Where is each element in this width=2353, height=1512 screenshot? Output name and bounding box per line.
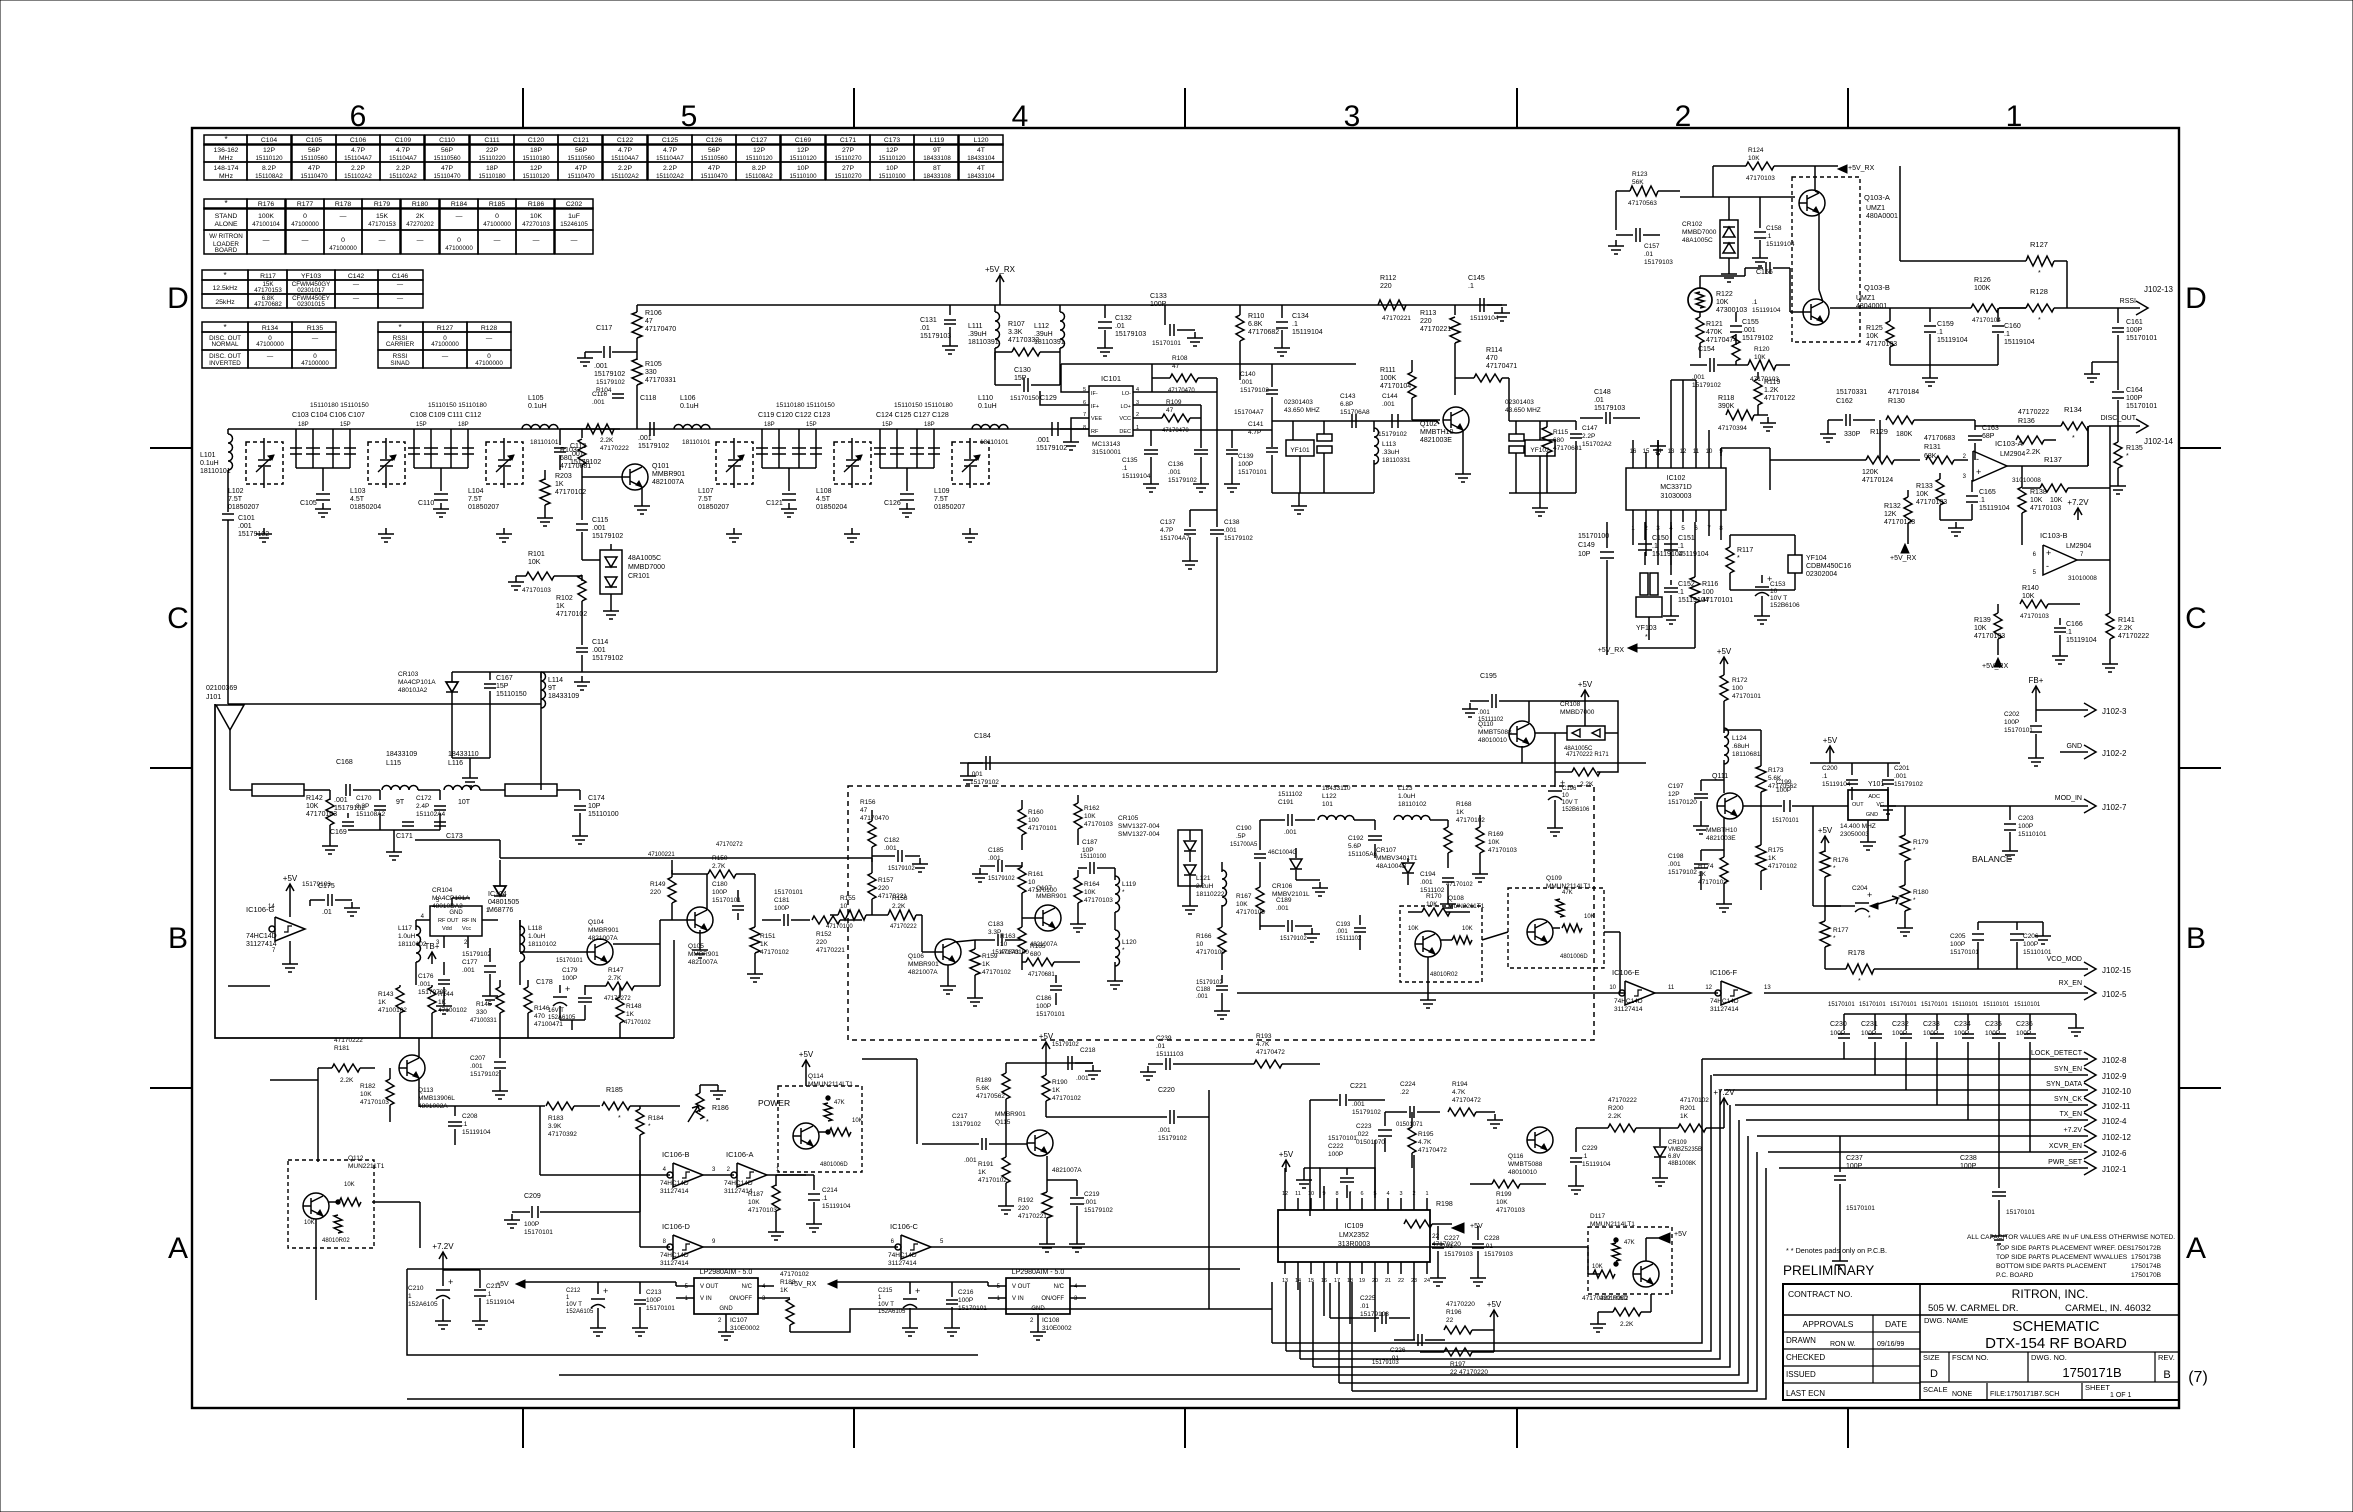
svg-text:15110100: 15110100: [1080, 854, 1107, 860]
svg-text:—: —: [417, 237, 424, 244]
svg-text:0.1uH: 0.1uH: [978, 403, 997, 410]
svg-text:15179102: 15179102: [988, 876, 1015, 882]
resistor R121: [1696, 317, 1704, 343]
svg-text:.1: .1: [1766, 233, 1772, 240]
svg-text:1511102: 1511102: [1278, 791, 1303, 798]
svg-text:.22: .22: [1400, 1089, 1409, 1096]
svg-text:31127414: 31127414: [1614, 1006, 1643, 1013]
svg-text:.001: .001: [334, 797, 348, 804]
svg-text:4821007A: 4821007A: [908, 969, 938, 976]
svg-text:DRAWN: DRAWN: [1786, 1336, 1816, 1345]
regulator IC107: [694, 1278, 758, 1314]
zone tick top 3/2: [1516, 88, 1518, 128]
svg-text:—: —: [533, 237, 540, 244]
svg-text:IC104: IC104: [488, 891, 507, 898]
svg-text:R135: R135: [307, 325, 323, 332]
svg-text:R162: R162: [1084, 805, 1100, 812]
svg-text:C149: C149: [1578, 542, 1595, 549]
resistor R103: [581, 429, 583, 438]
svg-text:10V T: 10V T: [878, 1302, 894, 1308]
wire q114 to q115 base: [862, 1058, 917, 1060]
svg-text:C152: C152: [1678, 581, 1695, 588]
inductor L112: [1059, 305, 1061, 312]
transistor Q102 b: [1437, 421, 1439, 424]
svg-text:47170222: 47170222: [600, 445, 629, 452]
svg-text:18433108: 18433108: [923, 173, 951, 180]
svg-text:310E0002: 310E0002: [1042, 1325, 1072, 1332]
svg-text:47170681: 47170681: [560, 463, 591, 470]
resistor R143: [396, 987, 404, 1013]
capacitor C222: [1340, 1177, 1354, 1179]
svg-text:C105: C105: [306, 137, 322, 144]
svg-text:.001: .001: [1076, 1075, 1089, 1082]
svg-text:47170100: 47170100: [1196, 949, 1225, 956]
svg-text:47170562: 47170562: [976, 1093, 1005, 1100]
svg-text:—: —: [486, 335, 493, 342]
svg-text:L113: L113: [1382, 441, 1396, 448]
svg-text:MMBV3401T1: MMBV3401T1: [1376, 855, 1418, 862]
svg-text:47170123: 47170123: [1884, 519, 1915, 526]
crystal filter YF102: [1525, 440, 1555, 456]
resistor R111: [1408, 372, 1416, 398]
svg-text:CARMEL, IN. 46032: CARMEL, IN. 46032: [2065, 1303, 2151, 1314]
svg-text:680: 680: [1553, 437, 1564, 444]
svg-text:C185: C185: [988, 847, 1004, 854]
svg-text:100: 100: [1028, 817, 1039, 824]
svg-text:R157: R157: [878, 877, 894, 884]
resistor R195: [1408, 1127, 1416, 1153]
svg-text:15110470: 15110470: [700, 173, 728, 180]
svg-text:MHz: MHz: [219, 155, 234, 162]
capacitor C216: [946, 1299, 958, 1301]
svg-text:47170470: 47170470: [1168, 388, 1195, 394]
svg-text:3.3K: 3.3K: [1008, 329, 1023, 336]
svg-text:.1: .1: [1468, 283, 1474, 290]
svg-text:15110560: 15110560: [433, 155, 461, 162]
svg-text:MMBTH10: MMBTH10: [1420, 429, 1454, 436]
svg-text:L109: L109: [934, 488, 950, 495]
svg-text:+: +: [2046, 548, 2051, 558]
svg-text:15110150 15110180: 15110150 15110180: [894, 402, 953, 409]
svg-text:J102-2: J102-2: [2102, 749, 2127, 758]
svg-text:18110102: 18110102: [1398, 801, 1427, 808]
transistor Q112 cell: [288, 1160, 374, 1248]
svg-text:R203: R203: [555, 473, 572, 480]
svg-text:15179102: 15179102: [638, 443, 669, 450]
svg-text:L101: L101: [200, 452, 216, 459]
resistor R166: [1218, 927, 1226, 953]
svg-text:01501070: 01501070: [1356, 1139, 1385, 1146]
capacitor C181: [783, 914, 785, 926]
svg-text:ADC: ADC: [1868, 794, 1880, 800]
svg-text:18110101: 18110101: [682, 439, 711, 446]
svg-text:100P: 100P: [1036, 1003, 1051, 1010]
svg-text:L112: L112: [1034, 323, 1049, 330]
capacitor C118: [649, 422, 651, 436]
svg-text:IC106-B: IC106-B: [662, 1150, 690, 1159]
svg-text:R164: R164: [1084, 881, 1100, 888]
svg-text:15179102: 15179102: [592, 655, 623, 662]
capacitor C154: [1709, 358, 1711, 372]
svg-text:.01: .01: [1156, 1043, 1165, 1050]
svg-text:100: 100: [1732, 685, 1743, 692]
wire IF node: [560, 428, 620, 430]
svg-text:74HC14D: 74HC14D: [1614, 998, 1643, 1005]
power +5V_RX left: [1628, 644, 1637, 652]
capacitor C210: [442, 1264, 444, 1286]
svg-text:47P: 47P: [308, 165, 321, 172]
svg-text:47170683: 47170683: [1924, 435, 1955, 442]
svg-text:15179102: 15179102: [1084, 1207, 1113, 1214]
title block size/fscm/dwgno/rev: [1920, 1381, 2179, 1383]
capacitor C138: [1210, 529, 1224, 531]
resistor R190: [1042, 1075, 1050, 1101]
svg-text:1K: 1K: [760, 941, 769, 948]
svg-text:18110222: 18110222: [1196, 891, 1225, 898]
svg-text:68P: 68P: [1982, 433, 1995, 440]
svg-text:C214: C214: [822, 1187, 838, 1194]
svg-text:+: +: [565, 984, 570, 994]
svg-text:47170472: 47170472: [1256, 1049, 1285, 1056]
svg-text:15179103: 15179103: [920, 333, 951, 340]
svg-text:V IN: V IN: [700, 1296, 712, 1302]
resistor pad R183x: [252, 784, 304, 796]
svg-text:R140: R140: [2022, 585, 2039, 592]
svg-text:SMV1327-004: SMV1327-004: [1118, 831, 1160, 838]
capacitor C129: [1051, 422, 1053, 436]
resistor R197: [1444, 1348, 1472, 1356]
svg-text:R135: R135: [2126, 445, 2143, 452]
svg-text:C131: C131: [920, 317, 937, 324]
table stand-alone / loader board options: [204, 199, 247, 209]
svg-text:C137: C137: [1160, 519, 1176, 526]
svg-text:8T: 8T: [933, 165, 941, 172]
svg-text:02100369: 02100369: [206, 685, 237, 692]
varactor cell L107: [716, 442, 753, 484]
svg-text:.1: .1: [1652, 543, 1658, 550]
svg-text:47100000: 47100000: [291, 221, 319, 228]
svg-text:100P: 100P: [1861, 1030, 1876, 1037]
svg-text:15170120: 15170120: [1668, 799, 1697, 806]
svg-text:9T: 9T: [548, 685, 557, 692]
svg-text:100P: 100P: [2016, 1030, 2031, 1037]
svg-text:*: *: [2038, 270, 2041, 277]
resistor R120: [1748, 360, 1776, 370]
ic IC109 synthesizer: [1278, 1210, 1430, 1262]
svg-text:R195: R195: [1418, 1131, 1434, 1138]
wire CR103 C167 join: [452, 757, 490, 759]
svg-text:R161: R161: [1028, 871, 1044, 878]
zone tick top 2/1: [1847, 88, 1849, 128]
svg-text:2.2P: 2.2P: [1582, 433, 1595, 440]
svg-text:1: 1: [1425, 1191, 1428, 1197]
resistor R127: [2026, 256, 2054, 266]
svg-text:136-162: 136-162: [214, 147, 239, 154]
resistor R164: [1074, 877, 1082, 903]
svg-text:01850207: 01850207: [228, 504, 259, 511]
resistor R132: [1904, 497, 1912, 523]
svg-text:R111: R111: [1380, 367, 1396, 374]
svg-text:MUN2211T1: MUN2211T1: [1448, 903, 1485, 910]
wire antenna rail: [452, 671, 541, 673]
capacitor C220: [1169, 1110, 1171, 1124]
capacitor C165: [1971, 480, 1973, 492]
svg-text:10K: 10K: [1754, 354, 1766, 361]
svg-text:10K: 10K: [1866, 333, 1879, 340]
capacitor C196: [1548, 790, 1562, 792]
svg-text:V IN: V IN: [1012, 1296, 1024, 1302]
svg-text:C109: C109: [395, 137, 411, 144]
svg-text:12.5kHz: 12.5kHz: [213, 285, 239, 292]
svg-text:R169: R169: [1488, 831, 1504, 838]
svg-text:*: *: [2072, 435, 2075, 442]
svg-text:2.2K: 2.2K: [2118, 625, 2133, 632]
svg-text:151104A7: 151104A7: [611, 155, 639, 162]
svg-text:680: 680: [560, 455, 572, 462]
svg-text:47170472: 47170472: [1452, 1097, 1481, 1104]
svg-text:47: 47: [645, 318, 653, 325]
svg-text:47100000: 47100000: [301, 360, 329, 367]
svg-text:.1: .1: [1678, 543, 1684, 550]
svg-text:R193: R193: [1256, 1033, 1272, 1040]
svg-text:15179102: 15179102: [1668, 869, 1697, 876]
svg-text:R116: R116: [1702, 581, 1718, 588]
svg-text:15170101: 15170101: [2126, 335, 2157, 342]
svg-text:47170102: 47170102: [1446, 882, 1473, 888]
svg-text:18433104: 18433104: [967, 155, 995, 162]
transistor Q108 cell: [1400, 906, 1482, 982]
svg-text:R129: R129: [1870, 427, 1888, 436]
svg-text:8.2P: 8.2P: [262, 165, 276, 172]
svg-text:C119 C120 C122 C123: C119 C120 C122 C123: [758, 412, 830, 419]
svg-text:47170103: 47170103: [1236, 909, 1265, 916]
wire Q105 collector: [706, 874, 708, 910]
svg-text:.001: .001: [1742, 327, 1756, 334]
svg-text:47170101: 47170101: [1028, 825, 1057, 832]
capacitor C225: [1381, 1312, 1383, 1324]
svg-text:10K: 10K: [2030, 497, 2043, 504]
svg-text:18110101: 18110101: [530, 439, 559, 446]
svg-text:74HC14D: 74HC14D: [660, 1252, 689, 1259]
ground IC102 top: [1657, 440, 1659, 456]
capacitor C184: [985, 756, 987, 770]
svg-text:02302004: 02302004: [1806, 571, 1837, 578]
svg-text:02301017: 02301017: [297, 287, 325, 294]
svg-text:15119104: 15119104: [2066, 637, 2097, 644]
svg-text:15P: 15P: [340, 422, 351, 428]
resistor R145: [496, 987, 504, 1013]
capacitor C195: [1491, 694, 1493, 708]
svg-text:RSSI: RSSI: [393, 353, 408, 360]
svg-text:C148: C148: [1594, 389, 1611, 396]
capacitor C190: [1259, 840, 1261, 850]
svg-text:48B1008K: 48B1008K: [1668, 1161, 1696, 1167]
svg-text:4.7P: 4.7P: [1248, 429, 1261, 436]
svg-text:100P: 100P: [2004, 719, 2019, 726]
svg-text:220: 220: [1018, 1205, 1029, 1212]
svg-text:C198: C198: [1668, 853, 1684, 860]
capacitor C156: [1765, 262, 1767, 274]
capacitors C119 C120 C122 C123: [761, 429, 763, 468]
svg-text:R128: R128: [481, 325, 497, 332]
border frame: [192, 128, 2179, 1408]
svg-text:TB+: TB+: [425, 942, 440, 951]
ceramic resonator pair: [1317, 434, 1332, 441]
svg-text:CR104: CR104: [432, 887, 453, 894]
svg-text:MA4CP101A: MA4CP101A: [398, 679, 436, 686]
svg-text:4.5T: 4.5T: [816, 496, 831, 503]
svg-text:100P: 100P: [1985, 1030, 2000, 1037]
svg-text:R182: R182: [360, 1083, 376, 1090]
svg-text:15179102: 15179102: [970, 779, 999, 786]
svg-text:15110120: 15110120: [789, 155, 817, 162]
resistor R142: [329, 790, 331, 800]
ground disc mid: [1940, 519, 1972, 521]
svg-text:.001: .001: [238, 523, 252, 530]
svg-text:10V T: 10V T: [1770, 595, 1787, 602]
svg-text:C168: C168: [336, 759, 353, 766]
svg-text:FILE:1750171B7.SCH: FILE:1750171B7.SCH: [1990, 1391, 2059, 1398]
svg-text:+5V_RX: +5V_RX: [1598, 647, 1625, 654]
svg-text:15P: 15P: [496, 683, 509, 690]
svg-text:15110101: 15110101: [2014, 1002, 2041, 1008]
svg-text:151102A2: 151102A2: [656, 173, 684, 180]
capacitor C224: [1409, 1106, 1411, 1118]
svg-text:Vdd: Vdd: [442, 926, 452, 932]
svg-text:NORMAL: NORMAL: [212, 341, 239, 348]
resistor R168: [1444, 827, 1452, 853]
capacitor C188: [1216, 985, 1228, 987]
svg-text:47100331: 47100331: [470, 1018, 497, 1024]
svg-text:C191: C191: [1278, 799, 1294, 806]
capacitor C147b: [1575, 421, 1577, 430]
svg-text:R163: R163: [1000, 933, 1016, 940]
svg-text:LAST ECN: LAST ECN: [1786, 1389, 1825, 1398]
svg-text:47170222 R202: 47170222 R202: [1582, 1295, 1629, 1302]
svg-text:4821007A: 4821007A: [588, 935, 618, 942]
svg-text:SMV1327-004: SMV1327-004: [1118, 823, 1160, 830]
capacitor C183: [997, 934, 999, 946]
svg-text:L108: L108: [816, 488, 832, 495]
svg-text:C188: C188: [1196, 987, 1211, 993]
svg-text:47: 47: [1172, 363, 1180, 370]
svg-text:Q104: Q104: [588, 919, 604, 926]
svg-text:R177: R177: [297, 201, 313, 208]
capacitor C135: [1150, 430, 1152, 446]
wire r189 rail: [1006, 1062, 1093, 1064]
svg-text:47170470: 47170470: [645, 326, 676, 333]
svg-text:1.2K: 1.2K: [1764, 387, 1779, 394]
svg-text:15110560: 15110560: [700, 155, 728, 162]
transistor Q107: [1035, 905, 1061, 931]
svg-text:.001: .001: [418, 981, 431, 988]
svg-text:15119104: 15119104: [1937, 337, 1968, 344]
svg-text:15119104: 15119104: [1582, 1161, 1611, 1168]
wire net TX_EN: [1746, 1119, 2088, 1121]
resistor R179: [1900, 835, 1910, 861]
svg-text:—: —: [302, 237, 309, 244]
svg-text:MC13143: MC13143: [1092, 441, 1121, 448]
svg-text:11: 11: [1668, 985, 1675, 991]
svg-text:R190: R190: [1052, 1079, 1068, 1086]
op-amp IC103-A: [1973, 451, 2007, 481]
svg-text:R198: R198: [1436, 1201, 1453, 1208]
resistor R165: [1026, 958, 1054, 966]
svg-text:*: *: [223, 323, 226, 332]
svg-text:PRELIMINARY: PRELIMINARY: [1783, 1263, 1874, 1278]
svg-text:2.2P: 2.2P: [396, 165, 410, 172]
svg-text:C153: C153: [1770, 581, 1786, 588]
svg-text:C200: C200: [1822, 765, 1838, 772]
svg-text:10: 10: [1308, 1191, 1314, 1197]
svg-text:*: *: [1858, 978, 1861, 985]
svg-text:10P: 10P: [588, 803, 601, 810]
svg-text:C115: C115: [592, 517, 608, 524]
svg-text:C228: C228: [1484, 1235, 1500, 1242]
svg-text:12P: 12P: [797, 147, 810, 154]
svg-text:+: +: [448, 1277, 453, 1287]
svg-text:C172: C172: [416, 795, 432, 802]
svg-text:+5V_RX: +5V_RX: [790, 1281, 817, 1288]
svg-text:R200: R200: [1608, 1105, 1624, 1112]
svg-text:56K: 56K: [1632, 179, 1644, 186]
svg-text:47100471: 47100471: [534, 1021, 563, 1028]
svg-text:.01: .01: [1115, 323, 1125, 330]
svg-text:4821007A: 4821007A: [1052, 1167, 1082, 1174]
svg-text:B: B: [2186, 922, 2206, 955]
transistor Q102: [1443, 407, 1469, 433]
svg-text:C192: C192: [1348, 835, 1364, 842]
svg-text:+5V_RX: +5V_RX: [985, 265, 1016, 274]
svg-text:6.8V: 6.8V: [1668, 1154, 1680, 1160]
svg-text:+7.2V: +7.2V: [2067, 498, 2089, 507]
svg-text:C124 C125 C127 C128: C124 C125 C127 C128: [876, 412, 949, 419]
svg-text:47170103: 47170103: [1916, 499, 1947, 506]
svg-text:10P: 10P: [1082, 847, 1094, 854]
svg-text:R176: R176: [258, 201, 274, 208]
svg-text:47170222 R171: 47170222 R171: [1566, 752, 1609, 758]
svg-text:C: C: [167, 602, 189, 635]
table disc out normal/inverted: [202, 322, 248, 332]
svg-text:ON/OFF: ON/OFF: [1041, 1296, 1064, 1302]
svg-text:100P: 100P: [646, 1297, 661, 1304]
svg-text:.1: .1: [1937, 329, 1943, 336]
wire C205 C206 top gnd: [1978, 921, 2043, 923]
svg-text:R181: R181: [334, 1045, 350, 1052]
svg-text:C132: C132: [1115, 315, 1132, 322]
svg-text:L124: L124: [1732, 735, 1747, 742]
svg-text:B: B: [2163, 1369, 2170, 1381]
svg-text:4.7P: 4.7P: [1160, 527, 1173, 534]
svg-text:C121: C121: [766, 500, 783, 507]
resistor R194: [1448, 1108, 1476, 1116]
capacitor C131: [949, 305, 951, 315]
svg-text:10K: 10K: [2022, 593, 2035, 600]
svg-text:10K: 10K: [1488, 839, 1500, 846]
svg-text:10K: 10K: [1716, 299, 1729, 306]
capacitor C221: [1339, 1094, 1341, 1106]
svg-text:—: —: [397, 295, 404, 302]
svg-text:13179102: 13179102: [952, 1121, 981, 1128]
power FB+ right: [2035, 686, 2037, 698]
svg-text:C170: C170: [356, 795, 372, 802]
svg-text:*: *: [1645, 634, 1648, 641]
svg-text:47170102: 47170102: [780, 1271, 809, 1278]
svg-text:CONTRACT NO.: CONTRACT NO.: [1788, 1289, 1853, 1299]
svg-text:-: -: [2046, 561, 2049, 571]
svg-text:15179102: 15179102: [1036, 445, 1067, 452]
svg-text:15110560: 15110560: [567, 155, 595, 162]
